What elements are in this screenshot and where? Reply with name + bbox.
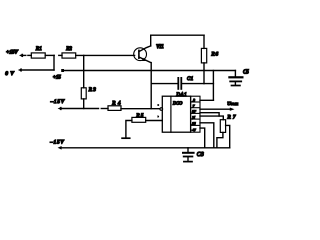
ground (C5) bbox=[232, 85, 240, 87]
wire to R1 bbox=[28, 54, 31, 56]
pin3 wire bbox=[200, 113, 219, 116]
emitter wire down bbox=[150, 63, 152, 109]
0V rail wire bbox=[22, 69, 55, 71]
R7 tap wire bbox=[226, 125, 230, 147]
svg-text:-U: -U bbox=[192, 128, 196, 132]
wire R1 to node A bbox=[45, 54, 54, 56]
IC pin boxes bbox=[191, 96, 200, 132]
svg-text:25: 25 bbox=[192, 121, 196, 125]
wire R2 to transistor base bbox=[76, 54, 135, 56]
svg-text:R6: R6 bbox=[211, 52, 219, 58]
C5 top wire bbox=[234, 71, 236, 77]
svg-text:ʾ: ʾ bbox=[157, 104, 159, 109]
svg-text:–15V: –15V bbox=[50, 99, 65, 105]
terminal +15 (mid) bbox=[61, 69, 64, 72]
svg-text:R7: R7 bbox=[227, 115, 236, 121]
ground (C3) bbox=[184, 161, 192, 163]
resistor R5 bbox=[132, 117, 146, 122]
C3 bottom wire bbox=[187, 157, 189, 160]
svg-text:C5: C5 bbox=[243, 69, 249, 75]
terminal +15V (top left) bbox=[19, 54, 26, 58]
main rail wire bbox=[64, 70, 235, 72]
terminal -15V (bottom) bbox=[58, 146, 62, 150]
svg-text:R3: R3 bbox=[88, 87, 96, 93]
C5 bottom wire bbox=[234, 83, 236, 85]
svg-text:C1: C1 bbox=[187, 77, 193, 82]
resistor R2 bbox=[62, 53, 76, 58]
pin numbers bbox=[191, 98, 196, 132]
pin1 wire bbox=[200, 99, 213, 101]
svg-text:DCO: DCO bbox=[172, 100, 183, 105]
wire to R4 bbox=[101, 108, 108, 110]
svg-text:DA1: DA1 bbox=[175, 93, 186, 98]
capacitor C1 wire left bbox=[151, 83, 177, 85]
svg-text:R5: R5 bbox=[135, 113, 143, 119]
svg-text:0V: 0V bbox=[5, 71, 14, 77]
pin4 wire bbox=[200, 116, 223, 120]
input bubble bbox=[160, 108, 163, 111]
pin5 wire bbox=[200, 123, 214, 148]
top wire bbox=[151, 34, 204, 36]
ground (R5) bbox=[122, 137, 130, 139]
terminal 0V bbox=[18, 68, 22, 72]
capacitor C5 bbox=[229, 77, 242, 81]
output arrow bbox=[230, 108, 235, 111]
svg-text:5Γ: 5Γ bbox=[192, 110, 196, 114]
resistor R6 bbox=[201, 48, 206, 63]
R5 left wire bbox=[126, 121, 132, 138]
resistor R3 bottom wire bbox=[83, 99, 85, 109]
transistor VT1 bbox=[134, 46, 151, 63]
capacitor C1 bbox=[178, 78, 181, 89]
svg-text:–15V: –15V bbox=[49, 140, 64, 146]
svg-text:+15: +15 bbox=[53, 75, 62, 80]
IC DA1 box bbox=[162, 96, 190, 132]
pin6 wire bbox=[200, 128, 205, 148]
resistor R1 bbox=[31, 53, 45, 58]
bottom rail wire bbox=[61, 147, 230, 149]
svg-text:R1: R1 bbox=[35, 46, 42, 52]
resistor R3 top wire bbox=[83, 55, 85, 87]
wire node A to R2 bbox=[59, 54, 62, 56]
R7 bottom wire bbox=[217, 132, 223, 147]
capacitor C1 wire right bbox=[182, 83, 213, 85]
R6 bottom wire bbox=[203, 63, 205, 84]
R6 top wire bbox=[203, 35, 205, 48]
pin1 riser wire bbox=[212, 71, 214, 101]
resistor R7 bbox=[220, 120, 225, 133]
capacitor C3 top wire bbox=[187, 148, 189, 152]
svg-text:ʾ: ʾ bbox=[157, 115, 159, 120]
capacitor C3 bbox=[183, 153, 194, 157]
resistor R5 right wire bbox=[146, 120, 163, 122]
svg-text:C3: C3 bbox=[197, 152, 204, 158]
-15V rail wire bbox=[61, 108, 99, 110]
svg-text:VT1: VT1 bbox=[156, 45, 164, 50]
svg-text:Uвых: Uвых bbox=[227, 101, 238, 106]
pin2 output wire bbox=[200, 108, 230, 110]
resistor R3 bbox=[81, 88, 86, 99]
svg-text:+15V: +15V bbox=[6, 50, 19, 56]
collector wire up bbox=[150, 35, 152, 46]
resistor R4 bbox=[108, 106, 121, 111]
svg-text:R2: R2 bbox=[65, 46, 72, 52]
wire R4 to input bbox=[121, 108, 160, 110]
node A drop wire bbox=[53, 55, 55, 70]
terminal -15V (mid left) bbox=[58, 107, 62, 111]
